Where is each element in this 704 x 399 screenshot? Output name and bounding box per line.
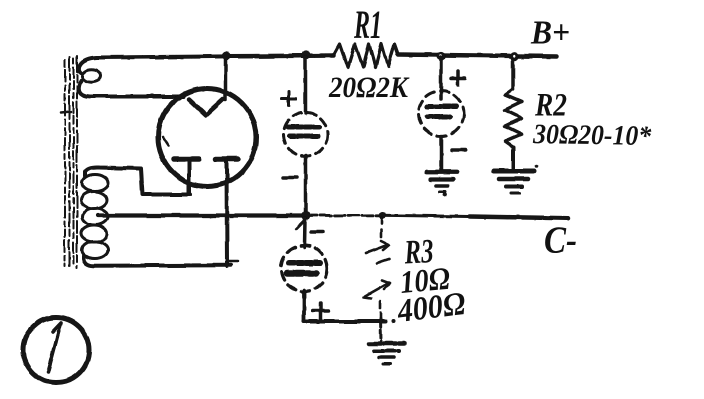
svg-text:400Ω: 400Ω <box>395 286 468 330</box>
transformer T1 primary winding (top) <box>79 56 334 97</box>
stray dot right of R3 bottom <box>391 320 395 324</box>
capacitor C1 plus sign <box>282 92 296 106</box>
wire top rail left section <box>226 53 334 58</box>
resistor R2 zigzag <box>505 89 522 147</box>
wire plate lead to top rail <box>224 56 228 100</box>
resistor R2 lead bottom <box>512 147 516 168</box>
node junction C3/C- rail <box>302 211 311 220</box>
tube V1 filament bar right <box>216 156 238 162</box>
capacitor C3 plates scribble <box>289 260 320 266</box>
capacitor C2 dashed circle <box>419 91 464 136</box>
figure number circle (1) <box>23 318 89 383</box>
svg-text:R1: R1 <box>353 2 382 47</box>
node junction C2/top rail <box>436 51 445 60</box>
svg-text:20Ω2K: 20Ω2K <box>328 71 410 104</box>
resistor R3 lead bottom <box>379 319 383 341</box>
node junction R2/top rail B+ <box>510 52 519 61</box>
capacitor C3 minus sign <box>311 230 323 234</box>
svg-text:R2: R2 <box>534 88 567 124</box>
capacitor C2 (x=441) lead top <box>439 57 443 99</box>
rectifier tube V1 envelope <box>158 89 256 187</box>
wire C- rail from secondary center tap <box>98 213 306 217</box>
capacitor C1 dashed circle <box>284 113 328 157</box>
stray dot right of R2 ground <box>535 164 539 168</box>
capacitor C1 plates scribble <box>288 125 322 130</box>
capacitor C2 plates scribble <box>427 104 456 109</box>
ground under C2 <box>427 172 457 192</box>
capacitor C2 minus sign <box>452 148 466 152</box>
capacitor C3 (lower, x=304) lead top <box>303 218 307 247</box>
ground under R3 <box>369 344 404 365</box>
wire bottom between C3 and R3 <box>304 320 385 324</box>
stray ink dot <box>443 193 448 198</box>
wire secondary bottom lead to right filament <box>84 256 231 266</box>
svg-text:C-: C- <box>544 220 577 262</box>
corner overshoot tick at filament return <box>228 260 238 263</box>
capacitor C1 minus sign <box>283 176 297 180</box>
capacitor C3 lead bottom <box>302 290 306 322</box>
tube V1 plate (V shape) <box>189 99 223 115</box>
capacitor C3 plus sign <box>313 303 329 319</box>
transformer T1 secondary winding (bottom, 5 turns) <box>81 175 108 259</box>
resistor R2 lead top <box>511 60 515 89</box>
junction hook artifact <box>296 221 304 229</box>
svg-text:B+: B+ <box>530 15 570 52</box>
resistor R3 zigzag (sketchy) <box>364 218 390 319</box>
wire top rail right section to B+ <box>398 55 557 57</box>
resistor R1 zigzag <box>334 44 398 67</box>
node junction R3/C- rail <box>379 212 387 220</box>
capacitor C2 plus sign <box>451 71 465 85</box>
capacitor C3 dashed circle <box>281 246 327 292</box>
ground under R2 <box>494 171 534 193</box>
capacitor C2 lead bottom <box>439 136 443 170</box>
tube V1 filament bar left <box>174 156 199 162</box>
wire right filament lead down through C- rail <box>225 161 230 266</box>
capacitor C1 lead bottom to C- rail <box>304 156 308 215</box>
node junction plate/rail <box>222 52 230 60</box>
svg-text:30Ω20-10*: 30Ω20-10* <box>532 119 652 152</box>
wire secondary top lead to left filament <box>85 167 190 194</box>
artifact tick inside tube left <box>163 137 169 146</box>
wire left filament lead <box>187 161 191 194</box>
transformer T1 core laminations <box>61 56 77 268</box>
node junction C1/top rail <box>302 50 311 59</box>
capacitor C1 (x=305) lead top <box>304 57 308 113</box>
